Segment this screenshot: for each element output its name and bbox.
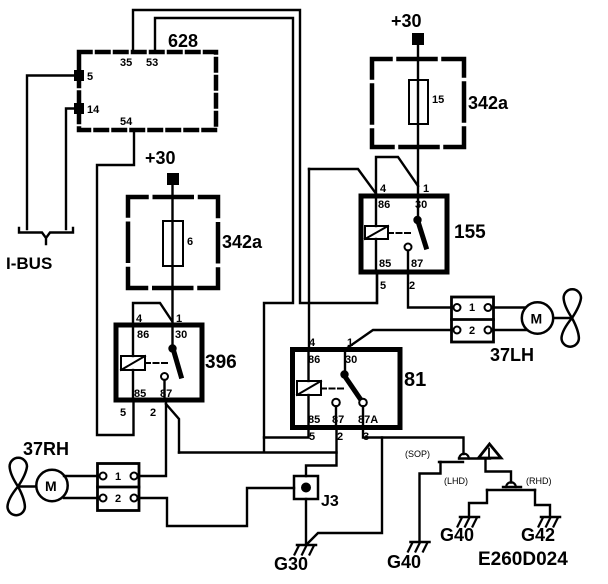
svg-text:(SOP): (SOP)	[405, 449, 430, 459]
wire 628 pin14 to I-BUS	[66, 109, 74, 230]
svg-text:15: 15	[432, 94, 444, 106]
wire +30 to fuse15 to relay155 pin1	[417, 45, 419, 196]
svg-text:1: 1	[423, 183, 429, 195]
wire relay81 pin5 to left rail	[264, 428, 309, 438]
svg-text:1: 1	[469, 302, 475, 314]
svg-text:5: 5	[87, 71, 93, 83]
svg-text:5: 5	[120, 407, 126, 419]
node +30 left terminal	[167, 173, 179, 185]
junction J3	[294, 476, 339, 510]
wire ground branch from pin3 rail	[307, 438, 382, 545]
coil relay81	[297, 350, 321, 428]
wire 37RH pin2 loop to J3	[139, 488, 294, 526]
svg-text:J3: J3	[321, 493, 339, 510]
svg-text:86: 86	[308, 354, 320, 366]
svg-text:30: 30	[345, 354, 357, 366]
connector LHD-RHD break	[487, 482, 535, 490]
svg-text:1: 1	[176, 313, 182, 325]
wire 628 pin53 inner loop down left column	[155, 18, 293, 452]
relay 396	[116, 313, 237, 419]
dashed actuator line relay81	[321, 388, 343, 390]
unit 342a right dashed box	[372, 59, 464, 147]
wire J3 to G30	[305, 499, 307, 544]
wire vertical to relay81 pin4	[308, 169, 310, 349]
svg-text:+30: +30	[391, 11, 422, 31]
svg-text:G42: G42	[521, 525, 555, 545]
unit 342a left dashed box	[128, 197, 218, 288]
wire relay396 pin4 jumper to pin1	[133, 303, 172, 325]
wire LHD to G40 mid	[469, 490, 487, 516]
wire RHD to G42	[535, 490, 550, 516]
motor 37RH	[18, 470, 68, 501]
wire 628 pin54 loop to relay396 pin5	[97, 133, 134, 435]
svg-text:4: 4	[309, 337, 316, 349]
connector 37RH	[98, 464, 140, 511]
switch relay155	[405, 196, 427, 272]
svg-text:87: 87	[160, 388, 172, 400]
svg-text:G40: G40	[440, 525, 474, 545]
ground G30	[295, 545, 317, 555]
svg-text:81: 81	[404, 369, 426, 391]
pin 14 terminal	[74, 103, 84, 114]
svg-text:628: 628	[168, 31, 198, 51]
wire relay81 pin3 to SOP	[363, 428, 464, 455]
wire SOP to G40 left	[420, 462, 441, 541]
svg-text:87: 87	[332, 414, 344, 426]
wire relay155 pin5 down	[376, 272, 378, 303]
svg-text:E260D024: E260D024	[478, 549, 568, 570]
svg-text:I-BUS: I-BUS	[6, 254, 52, 273]
node I-BUS bracket	[19, 228, 73, 244]
svg-text:342a: 342a	[468, 93, 509, 113]
wire relay396 pin2 branch to long rail	[166, 404, 179, 453]
connector SOP break	[439, 454, 490, 462]
unit 628 dashed box	[79, 52, 216, 130]
coil relay155	[365, 196, 388, 272]
svg-text:4: 4	[380, 183, 387, 195]
svg-text:155: 155	[454, 222, 486, 243]
motor 37LH	[522, 302, 572, 333]
wire relay81 pin2 down to J3	[306, 428, 337, 477]
wire relay155 pin4 from left	[309, 169, 377, 195]
pin 5 terminal	[74, 70, 84, 81]
svg-text:1: 1	[115, 471, 121, 483]
svg-text:2: 2	[469, 325, 475, 337]
connector 37LH	[452, 297, 494, 342]
relay 81	[293, 337, 427, 443]
svg-text:4: 4	[136, 313, 143, 325]
wire 628 pin35 top loop to relay155 pin5	[133, 10, 377, 303]
wire 628 pin5 to I-BUS	[27, 76, 74, 230]
svg-text:37LH: 37LH	[490, 345, 534, 365]
wire long rail y452	[179, 451, 337, 453]
svg-text:2: 2	[150, 407, 156, 419]
svg-text:+30: +30	[145, 148, 176, 168]
wire +30 to fuse6 to relay396 pin1	[171, 185, 173, 325]
svg-text:5: 5	[380, 280, 386, 292]
svg-text:(RHD): (RHD)	[526, 476, 552, 486]
svg-text:85: 85	[134, 388, 146, 400]
svg-text:M: M	[45, 478, 57, 494]
fan 37RH	[8, 458, 28, 515]
svg-text:G30: G30	[274, 554, 308, 574]
svg-text:86: 86	[137, 329, 149, 341]
svg-text:54: 54	[120, 116, 133, 128]
svg-text:35: 35	[120, 57, 132, 69]
svg-text:342a: 342a	[222, 232, 263, 252]
svg-text:30: 30	[175, 329, 187, 341]
svg-text:396: 396	[205, 352, 237, 373]
ground G42	[539, 517, 561, 527]
warning triangle	[479, 444, 502, 458]
svg-text:2: 2	[337, 431, 343, 443]
svg-text:(LHD): (LHD)	[444, 476, 468, 486]
fan 37LH	[562, 289, 582, 346]
svg-text:2: 2	[409, 280, 415, 292]
svg-text:M: M	[531, 311, 543, 327]
svg-text:5: 5	[309, 431, 315, 443]
switch relay81	[332, 350, 367, 428]
svg-text:85: 85	[308, 414, 320, 426]
svg-text:37RH: 37RH	[23, 439, 69, 459]
wire relay155 pin2 to 37LH pin1	[408, 272, 452, 308]
dashed actuator line relay155	[388, 232, 413, 234]
wire motor 37RH to connector	[64, 475, 99, 477]
node 628	[74, 31, 216, 130]
relay 155	[361, 183, 486, 292]
fuse 15	[409, 80, 428, 124]
svg-text:85: 85	[379, 258, 391, 270]
svg-text:87A: 87A	[358, 414, 378, 426]
switch relay396	[161, 325, 181, 400]
svg-text:53: 53	[146, 57, 158, 69]
svg-text:14: 14	[87, 104, 100, 116]
svg-text:6: 6	[187, 236, 193, 248]
wire 37LH connector to motor	[492, 306, 527, 308]
node +30 right terminal	[412, 33, 424, 45]
svg-text:G40: G40	[387, 552, 421, 572]
wire SOP to LHD-RHD connector	[486, 459, 512, 483]
svg-text:86: 86	[378, 199, 390, 211]
svg-text:2: 2	[115, 493, 121, 505]
wire relay81 pin1 diagonal from 37LH pin2	[345, 330, 452, 350]
ground G40 left	[408, 542, 430, 552]
wire relay155 pin4 jumper to pin1	[376, 157, 418, 196]
svg-text:87: 87	[411, 258, 423, 270]
dashed actuator line relay396	[145, 362, 168, 364]
wire relay396 pin2 to 37RH pin1	[139, 400, 166, 476]
fuse 6	[163, 221, 183, 266]
ground G40 mid	[458, 517, 480, 527]
coil relay396	[121, 325, 145, 400]
